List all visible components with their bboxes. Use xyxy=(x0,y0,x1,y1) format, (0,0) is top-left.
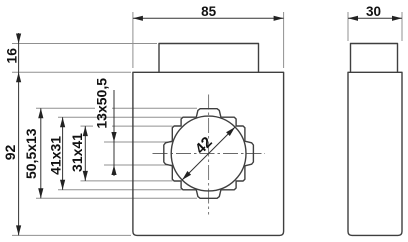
svg-text:16: 16 xyxy=(3,48,19,64)
svg-text:13x50,5: 13x50,5 xyxy=(93,78,109,129)
svg-text:30: 30 xyxy=(366,4,381,19)
svg-text:85: 85 xyxy=(201,4,217,19)
svg-text:92: 92 xyxy=(2,145,18,161)
svg-text:42: 42 xyxy=(192,134,216,158)
svg-text:50,5x13: 50,5x13 xyxy=(23,128,39,179)
svg-text:31x41: 31x41 xyxy=(69,133,85,172)
svg-text:41x31: 41x31 xyxy=(48,136,64,175)
